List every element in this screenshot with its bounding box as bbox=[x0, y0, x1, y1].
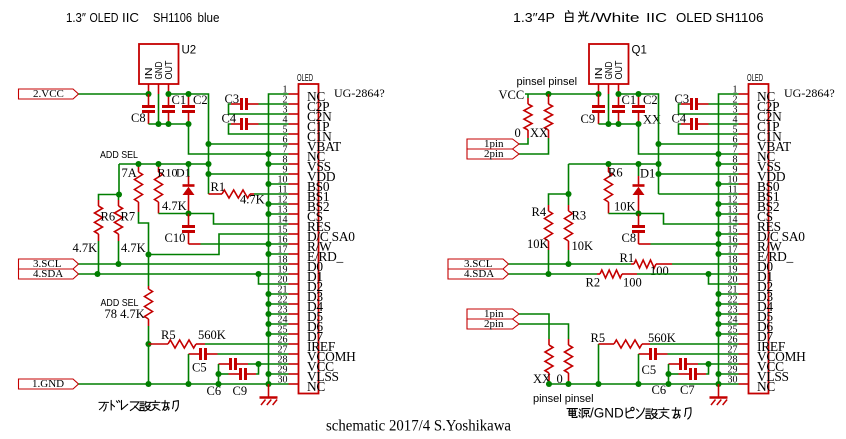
resistor R5 right bbox=[599, 343, 615, 345]
wire C7 left to C6 column bbox=[669, 373, 679, 375]
svg-text:4.7K: 4.7K bbox=[73, 241, 98, 255]
svg-text:R10: R10 bbox=[158, 166, 178, 180]
junction VCC/IN/C9 bbox=[595, 91, 601, 97]
svg-text:Q1: Q1 bbox=[632, 45, 647, 57]
resistor 0 (pin select) bbox=[527, 94, 529, 98]
junction R6/R7 top node bbox=[116, 191, 122, 197]
wire C3 left wrap to pin3 bbox=[229, 104, 289, 114]
svg-text:R1: R1 bbox=[620, 251, 635, 265]
svg-text:IIC: IIC bbox=[646, 10, 667, 25]
wire pin10 BS0 row bbox=[269, 183, 289, 185]
wire C9 right up to VCC row bbox=[256, 364, 259, 374]
wire 2pin to 0 resistor bbox=[519, 324, 569, 339]
junction bus pin8 bbox=[265, 161, 271, 167]
svg-text:C8: C8 bbox=[622, 231, 637, 245]
right pin 6 VBAT bbox=[733, 135, 792, 155]
resistor R1 right (100) bbox=[631, 263, 634, 265]
wire SDA jog to pin20 right bbox=[709, 274, 739, 284]
svg-text:30: 30 bbox=[278, 375, 288, 386]
wire C7 right up to VCC row right bbox=[706, 364, 709, 374]
junction C1 right bottom bbox=[615, 121, 621, 127]
junction C6 column on rail right bbox=[665, 381, 671, 387]
right pin 8 VSS bbox=[733, 155, 781, 175]
junction R7 on SCL bbox=[115, 261, 121, 267]
right pin 14 RES bbox=[728, 215, 781, 235]
svg-text:C6: C6 bbox=[652, 383, 667, 397]
wire pin12 BS2 row bbox=[269, 203, 289, 205]
wire pin10 BS0 row right bbox=[719, 183, 739, 185]
wire pin12 BS2 row right bbox=[719, 203, 739, 205]
right pin 12 BS2 bbox=[728, 195, 780, 215]
capacitor C9 bbox=[229, 373, 241, 375]
wire R3 top branch bbox=[568, 194, 570, 205]
junction bus pins 21-25 bbox=[265, 291, 271, 297]
svg-text:4.SDA: 4.SDA bbox=[33, 268, 63, 280]
junction OUT/C1 right bbox=[615, 91, 621, 97]
junction address column / D/C jog bbox=[145, 251, 151, 257]
svg-text:pinsel pinsel: pinsel pinsel bbox=[533, 393, 594, 405]
wire ground drop to pin7 row bbox=[189, 124, 289, 154]
junction bus pin16 bbox=[265, 241, 271, 247]
svg-text:schematic 2017/4 S.Yoshikawa: schematic 2017/4 S.Yoshikawa bbox=[326, 418, 511, 435]
resistor R2 (100) bbox=[597, 273, 600, 275]
right pin 18 D0 bbox=[728, 255, 774, 275]
capacitor C1 right bbox=[618, 94, 620, 106]
regulator Q1 pin GND stub bbox=[608, 84, 610, 94]
capacitor C6 bbox=[219, 363, 231, 365]
wire C3 right to pin2 bbox=[259, 103, 289, 105]
net flag 1pin top bbox=[467, 139, 519, 149]
svg-text:78 4.7K: 78 4.7K bbox=[105, 307, 145, 321]
junction bus on rail right bbox=[715, 381, 721, 387]
diode D1 right bbox=[638, 164, 640, 176]
wire 0 resistor bottom to rail bbox=[568, 381, 570, 384]
regulator U2 pin OUT stub bbox=[168, 84, 170, 94]
left pin 7 NC bbox=[283, 145, 326, 165]
left pin 4 C1P bbox=[283, 115, 330, 135]
svg-text:C10: C10 bbox=[165, 231, 186, 245]
left pin 12 BS2 bbox=[278, 195, 330, 215]
right pin 5 C1N bbox=[733, 125, 783, 145]
svg-text:10K: 10K bbox=[572, 239, 594, 253]
svg-text:100: 100 bbox=[650, 264, 669, 278]
svg-text:NC: NC bbox=[757, 379, 775, 394]
right pin 1 NC bbox=[733, 85, 776, 105]
wire resistor XX bottom to 2pin flag bbox=[519, 138, 549, 154]
wire pin29 VLSS row bbox=[269, 373, 289, 375]
resistor R4 (10K) bbox=[548, 205, 550, 211]
resistor R10 bbox=[158, 164, 160, 172]
junction C5 on rail bbox=[185, 381, 191, 387]
left pin 27 VCOMH bbox=[278, 345, 357, 365]
left pin 13 CS bbox=[278, 205, 323, 225]
wire pin9 VDD row bbox=[209, 173, 289, 175]
resistor R6 (SDA pullup) bbox=[98, 200, 100, 206]
left pin 16 R/W bbox=[278, 235, 333, 255]
left pin 18 D0 bbox=[278, 255, 324, 275]
wire ADD SEL rail (VDD) bbox=[119, 163, 209, 165]
svg-text:VCC: VCC bbox=[499, 88, 525, 102]
wire C9 left to C6 column bbox=[219, 373, 229, 375]
svg-text:D1: D1 bbox=[640, 167, 655, 181]
diode D1 bbox=[188, 164, 190, 176]
junction rail end on VDD bus right bbox=[655, 161, 661, 167]
right pin 20 D2 bbox=[728, 275, 773, 295]
junction C6/C7 node right bbox=[665, 371, 671, 377]
left pin 9 VDD bbox=[283, 165, 336, 185]
svg-text:560K: 560K bbox=[198, 328, 226, 342]
net flag 2pin bottom bbox=[467, 319, 519, 329]
wire pin8 VSS row right bbox=[719, 163, 739, 165]
svg-text:R6: R6 bbox=[101, 210, 116, 224]
wire ground rail under caps right bbox=[599, 123, 639, 125]
svg-text:2pin: 2pin bbox=[484, 318, 504, 330]
left pin 11 BS1 bbox=[278, 185, 329, 205]
left pin 24 D6 bbox=[278, 315, 324, 335]
wire C6 left down to rail bbox=[218, 364, 220, 384]
regulator U2 pin IN stub bbox=[148, 84, 150, 94]
wire pin6 VBAT row bbox=[209, 143, 289, 145]
junction bus pin7 bbox=[265, 151, 271, 157]
junction C1 bottom bbox=[165, 121, 171, 127]
wire rail corner down to R6/R7 top bbox=[118, 164, 120, 195]
capacitor C3 right bbox=[681, 103, 691, 105]
junction bus pin29 right bbox=[715, 371, 721, 377]
wire VDD rail right from Q1 OUT bbox=[619, 94, 659, 194]
wire XX bottom to rail bbox=[548, 381, 550, 384]
svg-text:10K: 10K bbox=[614, 200, 636, 214]
junction XX resistor top bbox=[545, 91, 551, 97]
regulator Q1 pin IN stub bbox=[598, 84, 600, 94]
regulator U2 pin GND stub bbox=[158, 84, 160, 94]
junction C7 on VCC row bbox=[705, 361, 711, 367]
left pin 15 D/C SA0 bbox=[278, 225, 356, 245]
wire resistor 0 bottom to 1pin flag bbox=[519, 138, 528, 144]
ground symbol right bbox=[718, 384, 720, 397]
capacitor C4 right bbox=[681, 123, 691, 125]
wire C5 left down to rail right bbox=[638, 354, 640, 384]
junction VDD/pin9 right bbox=[655, 171, 661, 177]
junction bus pin12 right bbox=[715, 201, 721, 207]
svg-text:/GND: /GND bbox=[590, 406, 624, 421]
svg-text:OLED: OLED bbox=[747, 73, 763, 84]
svg-text:UG-2864?: UG-2864? bbox=[334, 86, 385, 100]
wire R5 column to rail right bbox=[598, 344, 600, 384]
left pin 6 VBAT bbox=[283, 135, 342, 155]
junction bus on rail bbox=[265, 381, 271, 387]
wire pin6 VBAT row right bbox=[659, 143, 739, 145]
left pin 26 IREF bbox=[278, 335, 336, 355]
junction VDD/VBAT bbox=[205, 141, 211, 147]
right pin 26 IREF bbox=[728, 335, 786, 355]
wire R1 to pin18 right bbox=[672, 263, 739, 265]
junction SDA jog node bbox=[255, 271, 261, 277]
wire pin8 VSS row bbox=[269, 163, 289, 165]
regulator Q1 body bbox=[589, 44, 629, 84]
right pin 2 C2P bbox=[733, 95, 780, 115]
connector OLED right body bbox=[749, 84, 769, 394]
net flag 1.GND bbox=[19, 379, 79, 389]
svg-text:C8: C8 bbox=[131, 111, 146, 125]
wire R2 to pin19 right bbox=[637, 273, 739, 275]
junction C5 on rail right bbox=[635, 381, 641, 387]
junction bus pins 21-25 right bbox=[715, 291, 721, 297]
left pin 5 C1N bbox=[283, 125, 333, 145]
junction D1 top on rail right bbox=[635, 161, 641, 167]
wire VCC rail to Q1 IN bbox=[525, 93, 599, 95]
right pin 22 D4 bbox=[728, 295, 774, 315]
svg-text:/White: /White bbox=[591, 10, 640, 25]
wire pin16 R/W row bbox=[201, 243, 289, 245]
wire pin1 to ground bus bbox=[269, 94, 289, 384]
net flag 1pin bottom bbox=[467, 309, 519, 319]
left pin 28 VCC bbox=[278, 355, 335, 375]
junction bus pin29 bbox=[265, 371, 271, 377]
wire C5 left down to ground rail bbox=[188, 354, 190, 384]
right pin 24 D6 bbox=[728, 315, 774, 335]
capacitor C8 right bbox=[638, 214, 640, 227]
svg-text:OLED: OLED bbox=[90, 10, 119, 25]
junction bus pin12 bbox=[265, 201, 271, 207]
resistor R1 bbox=[209, 193, 223, 195]
wire pin1 to ground bus right bbox=[719, 94, 739, 384]
right pin 4 C1P bbox=[733, 115, 780, 135]
wire C4 right lead to pin4 bbox=[709, 123, 739, 125]
right pin 21 D3 bbox=[728, 285, 774, 305]
svg-text:C2: C2 bbox=[193, 93, 208, 107]
junction R6 top on rail right bbox=[605, 161, 611, 167]
junction VDD/pin9 bbox=[205, 171, 211, 177]
net flag 4.SDA right bbox=[448, 269, 509, 279]
svg-text:100: 100 bbox=[623, 276, 642, 290]
wire R5 to pin26 IREF right bbox=[650, 343, 739, 345]
svg-text:R6: R6 bbox=[608, 166, 623, 180]
regulator Q1 pin names IN GND OUT bbox=[594, 61, 625, 80]
junction R5 column on rail right bbox=[595, 381, 601, 387]
capacitor C8 bbox=[148, 94, 150, 106]
wire R10 bottom to reset node bbox=[159, 213, 189, 215]
right pin 28 VCC bbox=[728, 355, 785, 375]
right pin 25 D7 bbox=[728, 325, 774, 345]
svg-text:C3: C3 bbox=[225, 92, 240, 106]
wire pin9 VDD row right bbox=[659, 173, 739, 175]
right pin 17 E/RD_ bbox=[728, 245, 794, 265]
wire VCC rail to U2 IN bbox=[79, 93, 149, 95]
svg-text:R5: R5 bbox=[161, 328, 176, 342]
wire 1pin to XX resistor bbox=[519, 314, 549, 339]
svg-text:IIC: IIC bbox=[122, 10, 139, 25]
svg-text:C3: C3 bbox=[675, 92, 690, 106]
wire R6 bottom to reset node right bbox=[609, 213, 639, 215]
caption left アドレス設定あり bbox=[99, 402, 109, 411]
junction bus pin13 bbox=[265, 211, 271, 217]
junction D1 top on rail bbox=[185, 161, 191, 167]
svg-text:30: 30 bbox=[728, 375, 738, 386]
svg-text:C5: C5 bbox=[642, 363, 657, 377]
wire C4 left wrap to pin5 bbox=[229, 124, 289, 134]
title right circuit kanji 白光 bbox=[566, 11, 573, 22]
wire C6 right to pin28 right bbox=[698, 363, 739, 365]
left pin 20 D2 bbox=[278, 275, 323, 295]
svg-text:UG-2864?: UG-2864? bbox=[784, 86, 835, 100]
resistor R3 (10K) bbox=[568, 205, 570, 211]
svg-text:C9: C9 bbox=[233, 384, 248, 398]
svg-text:SH1106: SH1106 bbox=[153, 10, 192, 25]
wire pins 21-25 rows right bbox=[719, 293, 739, 295]
junction C6 column on rail bbox=[215, 381, 221, 387]
junction XX on rail bbox=[546, 381, 552, 387]
svg-text:R1: R1 bbox=[211, 180, 226, 194]
connector OLED left body bbox=[299, 84, 319, 394]
capacitor C1 bbox=[168, 94, 170, 106]
regulator U2 body bbox=[139, 44, 179, 84]
right pin 19 D1 bbox=[728, 265, 773, 285]
net flag 2.VCC bbox=[19, 89, 79, 99]
svg-text:C9: C9 bbox=[581, 112, 596, 126]
wire SCL row to pin18 D0 bbox=[79, 263, 289, 265]
right pin 29 VLSS bbox=[728, 365, 789, 385]
junction C2 right bottom bbox=[635, 121, 641, 127]
svg-text:C5: C5 bbox=[192, 361, 207, 375]
svg-text:XX: XX bbox=[530, 126, 548, 140]
junction bus pin8 right bbox=[715, 161, 721, 167]
wire C6 right to pin28 VCC bbox=[248, 363, 289, 365]
junction 7A top on rail bbox=[135, 161, 141, 167]
svg-text:4.SDA: 4.SDA bbox=[464, 268, 494, 280]
wire SDA row to pin19 D1 bbox=[79, 273, 289, 275]
capacitor C7 bbox=[679, 373, 691, 375]
svg-text:2.VCC: 2.VCC bbox=[33, 88, 64, 100]
wire pin13 CS row bbox=[269, 213, 289, 215]
wire R7 top branch bbox=[118, 195, 120, 201]
wire R4 top branch bbox=[549, 194, 569, 205]
wire pin17 E/RD row bbox=[269, 253, 289, 255]
junction R4/R3 top node bbox=[565, 191, 571, 197]
right pin 13 CS bbox=[728, 205, 773, 225]
right pin 27 VCOMH bbox=[728, 345, 807, 365]
resistor 0 bottom (pin select) bbox=[568, 339, 570, 345]
resistor 7A (address select) bbox=[138, 164, 140, 172]
svg-text:U2: U2 bbox=[182, 45, 197, 57]
wire C6 left down to rail right bbox=[668, 364, 670, 384]
wire ground drop to pin7 row right bbox=[639, 124, 739, 154]
junction bus pin17 bbox=[265, 251, 271, 257]
left pin 2 C2P bbox=[283, 95, 330, 115]
regulator Q1 pin OUT stub bbox=[618, 84, 620, 94]
right pin 3 C2N bbox=[733, 105, 783, 125]
wire pin16 R/W row right bbox=[651, 243, 739, 245]
svg-text:R4: R4 bbox=[532, 205, 547, 219]
svg-text:C2: C2 bbox=[643, 93, 658, 107]
net flag 4.SDA bbox=[19, 269, 79, 279]
right pin 7 NC bbox=[733, 145, 776, 165]
left pin 3 C2N bbox=[283, 105, 333, 125]
wire R7 bottom to SCL bbox=[118, 241, 120, 264]
wire pin15 D/C SA0 jog to address column bbox=[149, 234, 289, 255]
wire R3 bottom to SCL right bbox=[568, 250, 570, 264]
capacitor C4 bbox=[231, 123, 241, 125]
net flag 3.SCL right bbox=[448, 259, 509, 269]
wire reset node jog to pin14 RES bbox=[189, 214, 289, 225]
junction bus pin10 right bbox=[715, 181, 721, 187]
right pin 15 D/C SA0 bbox=[728, 225, 806, 245]
junction rail end on VDD bus bbox=[205, 161, 211, 167]
wire VDD rail from U2 OUT to bus corner bbox=[169, 94, 209, 194]
wire R6 top branch bbox=[99, 195, 120, 201]
wire reset node jog to pin14 RES right bbox=[639, 214, 739, 225]
title left circuit bbox=[66, 10, 220, 25]
junction GND pin on rail bbox=[155, 121, 161, 127]
junction C9 on VCC row bbox=[255, 361, 261, 367]
wire Q1 GND pin down to rail bbox=[608, 94, 610, 124]
svg-text:OUT: OUT bbox=[164, 61, 175, 80]
left pin 8 VSS bbox=[283, 155, 331, 175]
svg-text:ADD SEL: ADD SEL bbox=[100, 149, 138, 161]
capacitor C2 bbox=[188, 94, 190, 106]
wire R1 to pin11 BS1 bbox=[254, 193, 289, 195]
wire C5 right to pin27 VCOMH bbox=[218, 353, 289, 355]
left pin 19 D1 bbox=[278, 265, 323, 285]
wire R5 to pin26 IREF bbox=[205, 343, 289, 345]
right pin 16 R/W bbox=[728, 235, 783, 255]
wire SDA row to R2 right bbox=[509, 273, 598, 275]
net flag 2pin top bbox=[467, 149, 519, 159]
right pin 30 NC bbox=[728, 375, 776, 395]
svg-text:R3: R3 bbox=[572, 209, 587, 223]
left pin 29 VLSS bbox=[278, 365, 339, 385]
wire VDD rail-164 right bbox=[569, 163, 659, 165]
junction GND pin on rail right bbox=[605, 121, 611, 127]
svg-text:SH1106: SH1106 bbox=[716, 10, 764, 25]
svg-text:2pin: 2pin bbox=[484, 148, 504, 160]
wire C4 left wrap to pin5 right bbox=[679, 124, 739, 134]
resistor R6 right (10K) bbox=[608, 164, 610, 172]
junction R4 on SDA right bbox=[545, 271, 551, 277]
right pin 11 BS1 bbox=[728, 185, 779, 205]
svg-text:R2: R2 bbox=[586, 276, 601, 290]
wire pin13 CS row right bbox=[719, 213, 739, 215]
wire C5 right to pin27 right bbox=[668, 353, 739, 355]
svg-text:0: 0 bbox=[515, 126, 521, 140]
svg-text:10K: 10K bbox=[527, 237, 549, 251]
wire R6 bottom to SDA bbox=[98, 241, 100, 274]
svg-text:NC: NC bbox=[307, 379, 325, 394]
junction C2 bottom / down-wire bbox=[185, 121, 191, 127]
junction R3 on SCL right bbox=[565, 261, 571, 267]
wire 7A bottom jog to address column bbox=[139, 212, 149, 286]
left pin 23 D5 bbox=[278, 305, 324, 325]
svg-text:R5: R5 bbox=[591, 331, 606, 345]
wire R5 node down to ground rail bbox=[148, 344, 150, 384]
wire pin29 VLSS row right bbox=[719, 373, 739, 375]
svg-text:560K: 560K bbox=[648, 331, 676, 345]
capacitor C5 right bbox=[639, 353, 651, 355]
resistor XX (pin select) bbox=[548, 94, 550, 104]
wire rail corner down to R4/R3 right bbox=[568, 164, 570, 194]
resistor R5 bbox=[149, 343, 169, 345]
svg-text:pinsel pinsel: pinsel pinsel bbox=[517, 76, 578, 88]
svg-text:1.3″4P: 1.3″4P bbox=[513, 10, 555, 25]
svg-text:C7: C7 bbox=[680, 383, 695, 397]
capacitor C2 right bbox=[638, 94, 640, 106]
svg-text:7A: 7A bbox=[122, 166, 137, 180]
right pin 10 BS0 bbox=[728, 175, 780, 195]
junction bus pin16 right bbox=[715, 241, 721, 247]
title right circuit part 2 bbox=[591, 10, 764, 25]
capacitor C5 bbox=[189, 353, 201, 355]
capacitor C6 right bbox=[669, 363, 681, 365]
left pin 17 E/RD_ bbox=[278, 245, 344, 265]
